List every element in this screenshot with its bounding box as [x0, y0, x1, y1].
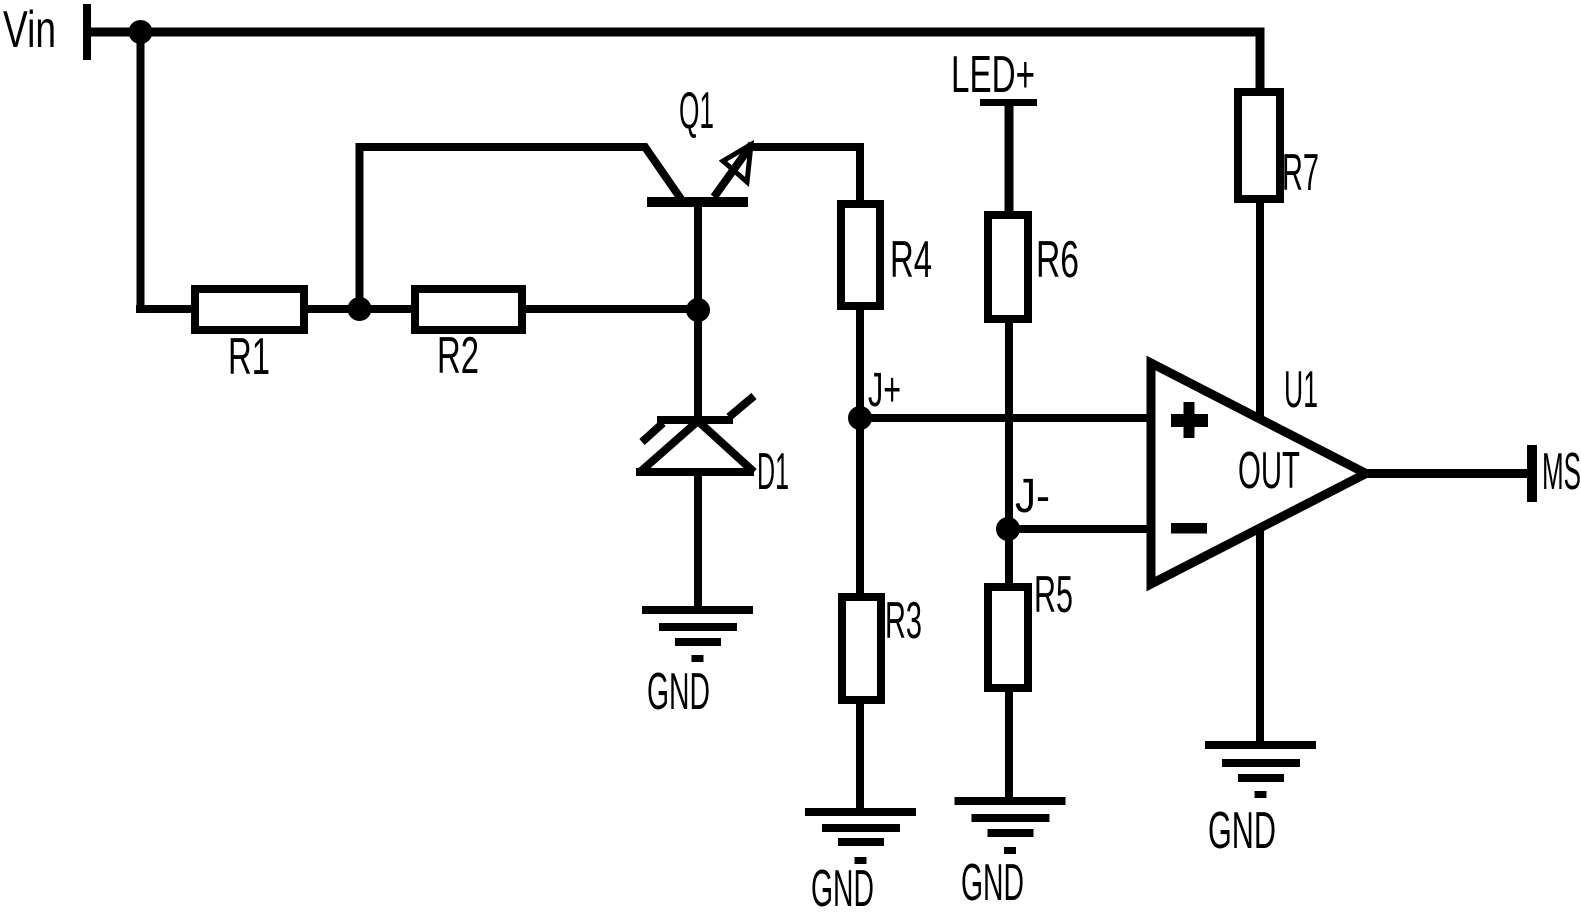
wire R6 down through J- to R5 — [1005, 319, 1013, 587]
svg-text:GND: GND — [811, 860, 874, 916]
wire op-amp V- to ground — [1256, 528, 1264, 743]
zener diode D1 left tail — [642, 423, 663, 442]
resistor R2 — [415, 289, 522, 330]
svg-text:MS: MS — [1542, 443, 1581, 501]
node J- dot — [996, 517, 1020, 541]
resistor R6 — [988, 215, 1028, 319]
svg-text:R6: R6 — [1036, 231, 1079, 289]
wire R1 to node B — [304, 305, 415, 313]
transistor Q1 base lead — [694, 207, 702, 310]
wire R4 to node J+ — [856, 306, 864, 418]
svg-text:Q1: Q1 — [679, 82, 714, 140]
wire Q1 emitter to R4 — [748, 147, 860, 204]
svg-text:R1: R1 — [228, 328, 270, 386]
zener diode D1 triangle — [640, 421, 754, 472]
op-amp plus sign — [1171, 414, 1208, 427]
op-amp U1 triangle — [1151, 363, 1366, 584]
svg-text:J+: J+ — [868, 364, 901, 417]
junction dot node B — [348, 297, 372, 321]
transistor Q1 emitter arrow — [723, 145, 751, 183]
wire LED+ to R6 — [1005, 106, 1014, 215]
svg-text:U1: U1 — [1284, 361, 1318, 419]
zener diode D1 cathode bar — [657, 416, 733, 424]
resistor R1 — [195, 289, 304, 330]
svg-text:R7: R7 — [1282, 144, 1319, 202]
wire D1 to ground — [694, 476, 702, 608]
ground GND under D1 — [642, 606, 753, 721]
transistor Q1 emitter — [714, 144, 752, 197]
svg-text:R2: R2 — [437, 327, 479, 385]
junction dot Vin rail — [129, 20, 153, 44]
op-amp minus sign — [1171, 523, 1207, 534]
wire J- to op-amp minus input — [1009, 525, 1151, 533]
zener diode D1 anode bar — [636, 468, 754, 476]
svg-text:LED+: LED+ — [951, 46, 1035, 104]
svg-text:R4: R4 — [890, 231, 932, 289]
svg-text:GND: GND — [961, 854, 1024, 912]
wire J+ down to R3 — [856, 418, 864, 597]
transistor Q1 base bar — [647, 197, 748, 207]
junction dot node C — [686, 298, 710, 322]
wire node C to D1 — [694, 310, 702, 416]
svg-text:GND: GND — [1208, 802, 1276, 860]
wire Vin drop to R1 — [136, 28, 195, 309]
node J+ dot — [848, 406, 872, 430]
svg-text:GND: GND — [647, 663, 710, 721]
resistor R4 — [841, 204, 880, 306]
wire top rail from Vin to R7 — [85, 32, 1260, 92]
wire R5 to ground — [1005, 688, 1013, 799]
svg-text:D1: D1 — [757, 443, 789, 501]
resistor R3 — [842, 597, 881, 700]
ground GND under op-amp — [1205, 741, 1316, 860]
wire J+ to op-amp plus input — [860, 414, 1151, 422]
resistor R5 — [988, 587, 1028, 688]
wire R2 to node C — [522, 305, 699, 313]
terminal LED+ — [980, 99, 1037, 106]
resistor R7 — [1238, 92, 1280, 199]
terminal Vin — [83, 4, 91, 60]
zener diode D1 right tail — [729, 396, 754, 417]
wire op-amp output to MS — [1358, 469, 1527, 478]
wire R7 to op-amp V+ — [1256, 199, 1264, 419]
ground GND under R3 — [805, 808, 916, 916]
svg-text:R3: R3 — [885, 592, 922, 650]
ground GND under R5 — [955, 797, 1066, 912]
svg-text:Vin: Vin — [3, 1, 56, 59]
wire R3 to ground — [856, 700, 864, 810]
wire node B feedback loop and Q1 collector — [360, 147, 682, 313]
svg-text:R5: R5 — [1034, 566, 1073, 624]
terminal MS — [1527, 445, 1537, 502]
svg-text:J-: J- — [1015, 470, 1050, 523]
svg-text:OUT: OUT — [1238, 442, 1300, 500]
